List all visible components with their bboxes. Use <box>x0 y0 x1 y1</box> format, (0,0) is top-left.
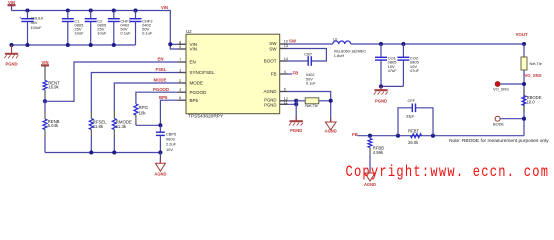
svg-text:EN: EN <box>158 57 164 62</box>
svg-text:0.1uF: 0.1uF <box>120 30 131 35</box>
node BODE junction <box>522 117 526 121</box>
svg-text:11.8k: 11.8k <box>93 124 104 129</box>
capacitor CO1 0805 10V 47uF <box>375 44 397 86</box>
wire PGND pin 11 <box>280 103 297 105</box>
node VIN rail junctions <box>25 8 172 46</box>
svg-text:11.3k: 11.3k <box>116 124 127 129</box>
wire VOUT rail <box>351 43 524 45</box>
node PGND junctions <box>294 99 298 107</box>
wire FB net horizontal <box>358 135 525 137</box>
svg-text:8: 8 <box>179 40 181 44</box>
svg-text:BODE: BODE <box>493 121 504 126</box>
svg-text:VO_SNS: VO_SNS <box>493 87 509 92</box>
wire BP5 net <box>160 100 186 125</box>
test point BODE <box>493 116 524 126</box>
wire SW pin 13 to BOOT loop <box>280 49 327 62</box>
svg-text:10: 10 <box>284 40 288 44</box>
svg-text:FB: FB <box>352 132 358 137</box>
ground AGND (left) <box>154 153 166 177</box>
wire input cap bottom rail <box>12 44 136 46</box>
svg-text:1: 1 <box>179 69 181 73</box>
wire output cap ground <box>381 85 403 87</box>
wire FB pin stub <box>280 73 292 75</box>
pin stubs U2 right <box>280 44 288 104</box>
svg-text:4.99k: 4.99k <box>373 150 384 155</box>
svg-text:VIN: VIN <box>42 60 49 65</box>
svg-text:MODE: MODE <box>154 78 167 83</box>
node EN junction <box>43 99 47 103</box>
svg-text:TPS543620RPY: TPS543620RPY <box>188 114 224 120</box>
node net-tie right junction <box>329 99 333 103</box>
pin numbers U2 left <box>179 40 181 100</box>
svg-text:10.0: 10.0 <box>527 100 536 105</box>
svg-text:7: 7 <box>179 58 181 62</box>
wire PGND column <box>295 101 297 120</box>
svg-text:47uF: 47uF <box>410 68 420 73</box>
svg-text:SW: SW <box>269 47 277 52</box>
node output cap ground junction <box>379 84 383 88</box>
capacitor CBULK 35V 100uF (polarized) <box>19 11 44 46</box>
svg-text:16.9k: 16.9k <box>48 85 59 90</box>
resistor RPG 10k <box>134 104 149 125</box>
svg-text:47uF: 47uF <box>388 68 398 73</box>
resistor RENB 6.04k <box>43 101 60 152</box>
net-tie NT1 PGND-AGND <box>296 98 331 108</box>
wire EN net <box>45 62 186 101</box>
svg-text:10V: 10V <box>166 147 173 152</box>
svg-text:10k: 10k <box>139 110 147 115</box>
svg-text:AGND: AGND <box>364 182 376 187</box>
svg-text:13: 13 <box>284 44 288 48</box>
svg-text:2: 2 <box>179 79 181 83</box>
watermark Copyright:www. eccn. com <box>345 164 549 182</box>
inductor L0 XEL6060-182MEC 1.8uH <box>333 37 367 58</box>
svg-text:FB: FB <box>293 71 299 76</box>
node VOUT rail junctions <box>379 42 526 46</box>
resistor RFBB 4.99k <box>368 136 384 173</box>
pin labels U2 left side <box>190 42 216 103</box>
node bottom rail left end <box>9 43 13 47</box>
wire RPG to BP5 node <box>136 124 161 126</box>
svg-text:Net-Tie: Net-Tie <box>305 104 317 108</box>
svg-text:BOOT: BOOT <box>264 59 277 64</box>
resistor RENT 16.9k <box>43 65 60 101</box>
svg-text:SW: SW <box>269 41 277 46</box>
wire MODE net <box>114 83 186 111</box>
resistor RBODE 10.0 <box>522 89 542 112</box>
svg-text:PGOOD: PGOOD <box>190 90 208 95</box>
ground AGND (RFBB) <box>364 169 376 187</box>
svg-text:PGND: PGND <box>375 99 387 104</box>
wire PGND pin 12 <box>280 100 297 102</box>
svg-text:SW: SW <box>289 39 297 44</box>
svg-text:PGND: PGND <box>5 62 17 67</box>
svg-text:0.1uF: 0.1uF <box>306 82 316 86</box>
capacitor CBT 0402 50V 0.1uF (bootstrap) <box>280 52 317 86</box>
svg-text:VIN: VIN <box>161 5 168 10</box>
svg-text:Net-Tie: Net-Tie <box>530 62 542 66</box>
capacitor CHF2 0402 50V 0.1uF <box>130 11 154 46</box>
svg-text:RPG: RPG <box>139 105 149 110</box>
svg-text:33pF: 33pF <box>406 114 415 118</box>
svg-text:EN: EN <box>190 60 196 65</box>
svg-text:CBT: CBT <box>304 52 312 57</box>
svg-text:Copyright:www. eccn. com: Copyright:www. eccn. com <box>345 164 549 182</box>
node FB junctions <box>368 134 435 138</box>
svg-text:CFF: CFF <box>408 98 416 103</box>
wire FSEL net <box>91 73 186 111</box>
wire VIN pin 8 branch <box>170 43 186 45</box>
svg-text:10uF: 10uF <box>74 30 84 35</box>
ground PGND (input caps) <box>4 45 18 67</box>
svg-text:MODE: MODE <box>190 81 204 86</box>
node BP5 junction <box>158 123 162 127</box>
pin numbers U2 right <box>284 40 288 105</box>
svg-text:1.8uH: 1.8uH <box>334 53 345 58</box>
svg-text:6: 6 <box>179 96 181 100</box>
svg-text:AGND: AGND <box>263 89 277 94</box>
capacitor CO2 0805 10V 47uF <box>397 44 419 86</box>
svg-text:FSEL: FSEL <box>156 67 167 72</box>
wire AGND bottom rail (left) <box>45 152 160 154</box>
wire SW net (pin 10) to inductor <box>280 43 333 45</box>
svg-text:FB: FB <box>271 72 277 77</box>
svg-text:100uF: 100uF <box>31 25 43 30</box>
svg-text:Note: RBODE for measurement pu: Note: RBODE for measurement purposes onl… <box>449 138 549 144</box>
node VO_SNS junction <box>522 82 526 86</box>
ground AGND (under IC) <box>325 118 337 133</box>
svg-text:+: + <box>19 16 22 21</box>
resistor RMODE 11.3k <box>112 111 132 153</box>
svg-text:VOUT: VOUT <box>516 32 529 37</box>
pin stubs U2 left <box>178 44 186 100</box>
svg-text:26.0k: 26.0k <box>408 140 419 145</box>
test point VO_SNS <box>493 82 524 92</box>
capacitor CHF1 0402 50V 0.1uF <box>108 11 132 46</box>
wire AGND pin 5 <box>280 92 331 123</box>
svg-text:3: 3 <box>179 88 181 92</box>
capacitor CFF 33pF (feedforward) <box>398 98 433 136</box>
ground PGND (under IC) <box>289 117 303 133</box>
svg-text:L0: L0 <box>333 37 337 41</box>
node bottom rail junctions <box>25 43 115 47</box>
svg-text:6.04k: 6.04k <box>48 123 59 128</box>
wire PGOOD net <box>136 92 186 104</box>
svg-text:0.1uF: 0.1uF <box>142 30 153 35</box>
svg-text:U2: U2 <box>186 29 192 34</box>
svg-text:10uF: 10uF <box>97 30 107 35</box>
net-tie NT2 VOUT-VO_SNS <box>521 57 542 70</box>
capacitor C2 0805 25V 10uF <box>85 11 107 46</box>
wire VOUT drop <box>523 44 525 57</box>
power flag VIN (EN divider) <box>41 60 49 65</box>
capacitor C1 0805 25V 10uF <box>62 11 84 46</box>
power flag VIN (input rail, top-left) <box>8 0 16 11</box>
svg-text:PGND: PGND <box>290 128 302 133</box>
svg-text:AGND: AGND <box>154 172 166 177</box>
svg-text:PGND: PGND <box>264 102 276 107</box>
resistor RFSEL 11.8k <box>89 111 107 153</box>
svg-text:RFBT: RFBT <box>408 129 419 134</box>
svg-text:PGOOD: PGOOD <box>153 87 169 92</box>
op-amp U2 TPS543620RPY (buck converter IC) <box>186 29 280 120</box>
svg-text:AGND: AGND <box>325 128 337 133</box>
capacitor CBP5 0603 2.2uF 10V <box>156 125 177 152</box>
svg-text:BP5: BP5 <box>159 95 168 100</box>
ground PGND (output caps) <box>374 86 388 103</box>
wire VIN top rail <box>12 11 187 50</box>
svg-text:VIN: VIN <box>190 47 198 52</box>
pin labels U2 right side <box>263 41 277 107</box>
wire VO_SNS column <box>523 70 525 136</box>
svg-text:SYNC/FSEL: SYNC/FSEL <box>190 70 216 75</box>
svg-text:VO_SNS: VO_SNS <box>525 73 542 78</box>
svg-text:BP5: BP5 <box>190 98 199 103</box>
resistor RFBT 26.0k <box>408 129 422 145</box>
node bottom rail junctions (left) <box>89 150 162 154</box>
